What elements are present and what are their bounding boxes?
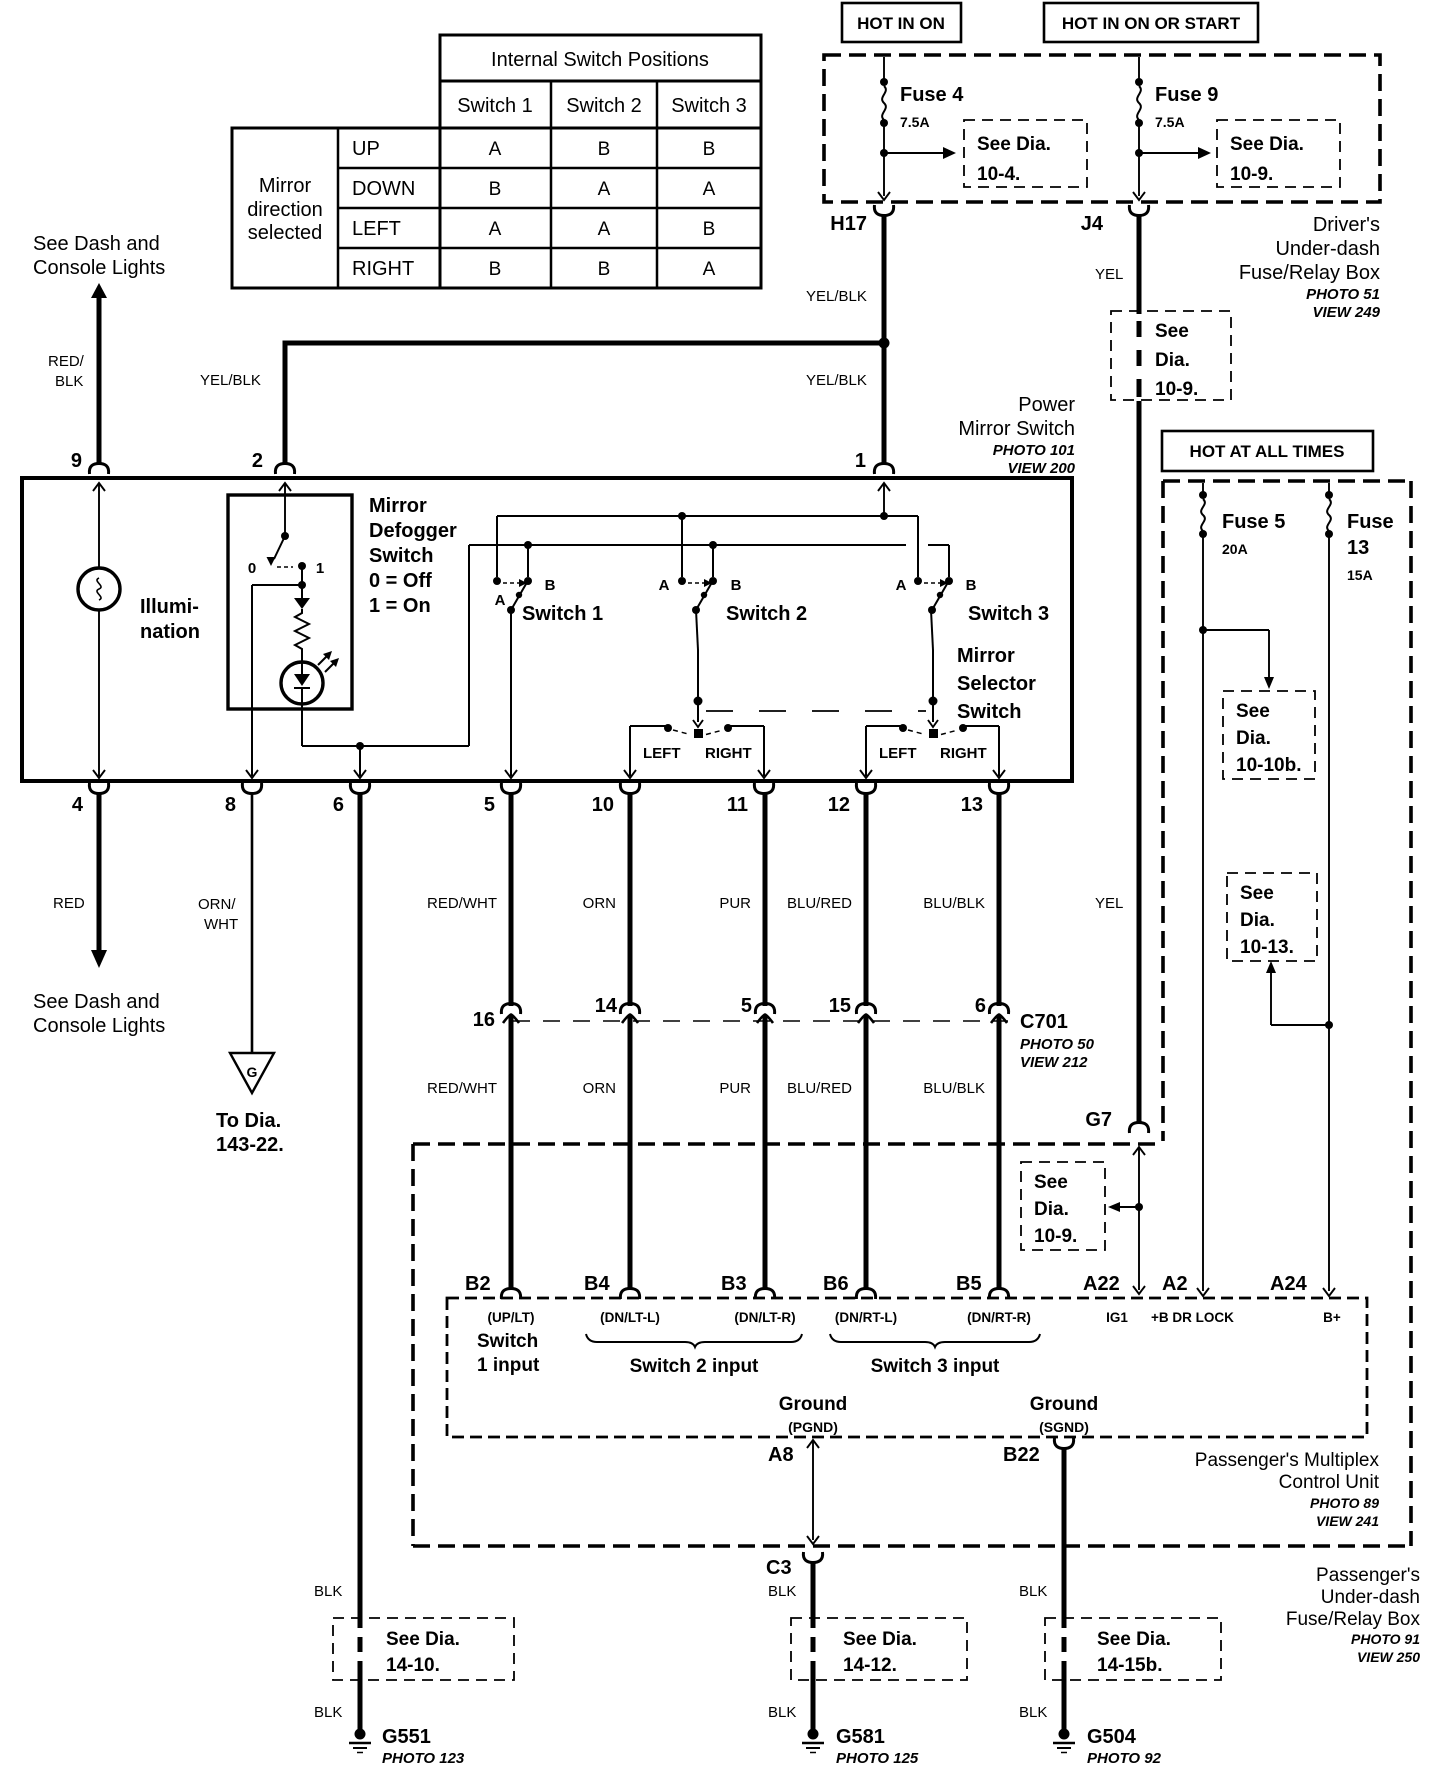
pin 2 entry arrow	[284, 483, 286, 534]
svg-text:Power: Power	[1018, 394, 1075, 416]
node See Dia. 14-12.	[791, 1618, 967, 1680]
svg-text:B: B	[966, 577, 977, 594]
svg-text:Fuse: Fuse	[1347, 511, 1394, 533]
svg-text:ORN: ORN	[583, 1080, 616, 1097]
wire RED/WHT	[509, 792, 514, 1006]
svg-text:(DN/RT-L): (DN/RT-L)	[835, 1310, 897, 1325]
svg-text:A22: A22	[1083, 1273, 1120, 1295]
svg-text:Internal Switch Positions: Internal Switch Positions	[491, 49, 709, 71]
svg-text:VIEW 249: VIEW 249	[1312, 304, 1380, 321]
wire BLU/BLK	[997, 792, 1002, 1006]
wire BLK B22 to G504	[1062, 1447, 1067, 1628]
svg-text:VIEW 250: VIEW 250	[1357, 1649, 1420, 1665]
svg-text:PHOTO 50: PHOTO 50	[1020, 1036, 1095, 1053]
svg-text:BLU/RED: BLU/RED	[787, 895, 852, 912]
svg-text:See Dash and: See Dash and	[33, 233, 160, 255]
table: Internal Switch Positions	[232, 35, 761, 288]
svg-text:14-12.: 14-12.	[843, 1655, 897, 1676]
svg-text:10-9.: 10-9.	[1034, 1226, 1077, 1247]
svg-text:ORN/: ORN/	[198, 896, 236, 913]
svg-text:15A: 15A	[1347, 567, 1373, 583]
wire ORN/WHT pin 8 to ground G	[251, 792, 254, 1053]
wire RED/BLK pin 9	[97, 295, 102, 463]
wire switch 2 common to selector 1	[696, 610, 698, 650]
svg-text:BLK: BLK	[1019, 1704, 1047, 1721]
svg-text:ORN: ORN	[583, 895, 616, 912]
svg-text:Switch 2 input: Switch 2 input	[630, 1356, 759, 1377]
passenger multiplex dashed box	[411, 1144, 415, 1546]
svg-text:PHOTO 92: PHOTO 92	[1087, 1750, 1162, 1767]
svg-text:Driver's: Driver's	[1313, 214, 1380, 236]
svg-text:H17: H17	[830, 213, 867, 235]
svg-text:See Dia.: See Dia.	[977, 134, 1051, 155]
svg-text:VIEW 212: VIEW 212	[1020, 1054, 1088, 1071]
svg-text:Dia.: Dia.	[1155, 350, 1190, 371]
svg-text:G: G	[247, 1064, 258, 1080]
defogger switch arm	[281, 532, 289, 540]
svg-text:RED/WHT: RED/WHT	[427, 895, 497, 912]
bus A (power)	[497, 515, 918, 517]
svg-text:Mirror Switch: Mirror Switch	[958, 418, 1075, 440]
svg-text:Passenger's: Passenger's	[1316, 1565, 1420, 1586]
svg-text:Mirror: Mirror	[259, 175, 312, 197]
svg-text:Switch 3: Switch 3	[968, 603, 1049, 625]
svg-text:A: A	[598, 179, 611, 200]
svg-text:Fuse 9: Fuse 9	[1155, 84, 1218, 106]
svg-text:B4: B4	[584, 1273, 610, 1295]
svg-text:B2: B2	[465, 1273, 491, 1295]
node See Dia. 10-9. (on J4 wire)	[1111, 311, 1231, 400]
junction: YEL/BLK tee	[879, 338, 890, 349]
svg-text:YEL/BLK: YEL/BLK	[200, 372, 261, 389]
fuse 9	[1133, 57, 1218, 200]
svg-text:A: A	[896, 577, 907, 594]
node HOT IN ON OR START	[1044, 3, 1258, 42]
switch 3	[914, 577, 922, 585]
svg-text:Console Lights: Console Lights	[33, 1015, 165, 1037]
wire to pin 8	[252, 584, 302, 586]
svg-text:Switch: Switch	[369, 545, 433, 567]
svg-text:0 = Off: 0 = Off	[369, 570, 432, 592]
wire BLK pin 6 to G551	[358, 792, 363, 1628]
svg-text:YEL/BLK: YEL/BLK	[806, 288, 867, 305]
svg-text:G551: G551	[382, 1726, 431, 1748]
svg-text:VIEW 200: VIEW 200	[1007, 460, 1075, 477]
svg-text:10-9.: 10-9.	[1230, 164, 1273, 185]
svg-text:PHOTO 123: PHOTO 123	[382, 1750, 465, 1767]
svg-text:Switch 2: Switch 2	[726, 603, 807, 625]
svg-text:HOT AT ALL TIMES: HOT AT ALL TIMES	[1190, 442, 1345, 461]
svg-text:11: 11	[727, 794, 748, 816]
svg-text:12: 12	[828, 794, 850, 816]
svg-text:C3: C3	[766, 1557, 792, 1579]
svg-text:(PGND): (PGND)	[788, 1419, 838, 1435]
svg-text:BLK: BLK	[768, 1704, 796, 1721]
svg-text:PHOTO 125: PHOTO 125	[836, 1750, 919, 1767]
svg-text:Switch: Switch	[957, 701, 1021, 723]
svg-text:B: B	[731, 577, 742, 594]
svg-text:WHT: WHT	[204, 916, 238, 933]
wire LED to ground bus	[301, 688, 303, 746]
svg-text:See Dash and: See Dash and	[33, 991, 160, 1013]
svg-text:7.5A: 7.5A	[1155, 114, 1185, 130]
svg-text:Fuse/Relay Box: Fuse/Relay Box	[1239, 262, 1380, 284]
svg-text:See Dia.: See Dia.	[386, 1629, 460, 1650]
node See Dia. 10-9.	[1217, 120, 1340, 187]
svg-text:PHOTO 91: PHOTO 91	[1351, 1631, 1420, 1647]
svg-text:(UP/LT): (UP/LT)	[488, 1310, 535, 1325]
svg-text:Dia.: Dia.	[1240, 910, 1275, 931]
svg-text:14-15b.: 14-15b.	[1097, 1655, 1162, 1676]
svg-text:YEL: YEL	[1095, 895, 1123, 912]
fuse 4	[878, 57, 964, 200]
ground G581	[808, 1729, 819, 1740]
svg-text:BLK: BLK	[768, 1583, 796, 1600]
brace switch 3 input	[830, 1334, 1040, 1347]
svg-text:RIGHT: RIGHT	[352, 258, 414, 280]
svg-text:143-22.: 143-22.	[216, 1134, 284, 1156]
passenger under-dash fuse/relay box (right dashed region)	[1161, 481, 1165, 1141]
svg-text:G581: G581	[836, 1726, 885, 1748]
svg-text:Fuse 4: Fuse 4	[900, 84, 964, 106]
svg-text:HOT IN ON: HOT IN ON	[857, 14, 945, 33]
svg-text:Dia.: Dia.	[1034, 1199, 1069, 1220]
svg-text:BLK: BLK	[1019, 1583, 1047, 1600]
arrow to dash lights	[91, 283, 107, 298]
svg-text:PHOTO 101: PHOTO 101	[993, 442, 1075, 459]
svg-text:See Dia.: See Dia.	[843, 1629, 917, 1650]
wire YEL from J4 down to G7	[1137, 214, 1142, 314]
mechanical link (dashed) between selectors	[706, 710, 926, 712]
svg-text:G504: G504	[1087, 1726, 1137, 1748]
svg-text:B: B	[545, 577, 556, 594]
svg-text:5: 5	[484, 794, 495, 816]
svg-text:6: 6	[333, 794, 344, 816]
svg-text:A: A	[703, 179, 716, 200]
svg-text:Fuse/Relay Box: Fuse/Relay Box	[1286, 1609, 1421, 1630]
resistor	[295, 609, 309, 652]
svg-text:See: See	[1240, 883, 1274, 904]
svg-text:16: 16	[473, 1009, 495, 1031]
svg-text:B: B	[598, 139, 611, 160]
svg-text:G7: G7	[1085, 1109, 1112, 1131]
svg-text:Ground: Ground	[1030, 1394, 1099, 1415]
svg-text:selected: selected	[248, 222, 323, 244]
svg-text:PUR: PUR	[719, 1080, 751, 1097]
wire from fuse 13 to A24	[1328, 536, 1330, 1291]
svg-text:A: A	[598, 219, 611, 240]
svg-text:B6: B6	[823, 1273, 849, 1295]
svg-text:RED/WHT: RED/WHT	[427, 1080, 497, 1097]
svg-text:Dia.: Dia.	[1236, 728, 1271, 749]
wire bulb to pin 4	[98, 610, 100, 776]
svg-text:B22: B22	[1003, 1444, 1040, 1466]
wire ORN	[628, 792, 633, 1006]
svg-text:A24: A24	[1270, 1273, 1308, 1295]
svg-text:1 = On: 1 = On	[369, 595, 431, 617]
wire: fuse 9 branch to See Dia 10-9	[1135, 149, 1143, 157]
node See Dia. 10-13.	[1227, 873, 1317, 961]
svg-text:7.5A: 7.5A	[900, 114, 930, 130]
svg-text:BLU/RED: BLU/RED	[787, 1080, 852, 1097]
svg-text:A2: A2	[1162, 1273, 1188, 1295]
pin 9 entry arrow	[98, 483, 100, 568]
svg-text:RED: RED	[53, 895, 85, 912]
svg-text:Illumi-: Illumi-	[140, 596, 199, 618]
wire PUR	[763, 792, 768, 1006]
ground G504	[1059, 1729, 1070, 1740]
svg-text:A: A	[495, 592, 506, 609]
fuse 5	[1199, 483, 1285, 557]
wire: fuse 4 branch to See Dia 10-4	[880, 149, 888, 157]
svg-text:Switch 1: Switch 1	[522, 603, 603, 625]
svg-text:BLU/BLK: BLU/BLK	[923, 895, 985, 912]
wire A22 from G7	[1133, 1147, 1145, 1155]
svg-text:Switch 3: Switch 3	[671, 95, 747, 117]
switch 2	[678, 577, 686, 585]
svg-text:PHOTO 89: PHOTO 89	[1310, 1495, 1379, 1511]
svg-text:See: See	[1034, 1172, 1068, 1193]
svg-text:9: 9	[71, 450, 82, 472]
brace switch 2 input	[586, 1334, 802, 1347]
svg-text:5: 5	[741, 995, 752, 1017]
svg-text:Control Unit: Control Unit	[1279, 1472, 1380, 1493]
svg-text:B: B	[703, 139, 716, 160]
svg-text:Ground: Ground	[779, 1394, 848, 1415]
wire BLU/RED	[864, 792, 869, 1006]
svg-text:B: B	[489, 179, 502, 200]
ground G551	[355, 1729, 366, 1740]
svg-text:+B DR LOCK: +B DR LOCK	[1151, 1310, 1234, 1325]
svg-text:UP: UP	[352, 138, 380, 160]
svg-text:(DN/RT-R): (DN/RT-R)	[967, 1310, 1031, 1325]
defogger contact 1	[298, 562, 306, 570]
junction: fuse 5 branch	[1199, 626, 1207, 634]
wire YEL/BLK horizontal to pin 2	[283, 341, 885, 346]
svg-text:(SGND): (SGND)	[1039, 1419, 1089, 1435]
svg-text:Selector: Selector	[957, 673, 1036, 695]
svg-text:B5: B5	[956, 1273, 982, 1295]
svg-text:See: See	[1236, 701, 1270, 722]
ground G (To Dia. 143-22.)	[230, 1053, 274, 1093]
wire switch 3 common to selector 2	[931, 610, 933, 650]
svg-text:14-10.: 14-10.	[386, 1655, 440, 1676]
svg-text:IG1: IG1	[1106, 1310, 1128, 1325]
svg-text:Switch 2: Switch 2	[566, 95, 642, 117]
svg-text:J4: J4	[1081, 213, 1104, 235]
svg-text:6: 6	[975, 995, 986, 1017]
selector switch (switch 3 output)	[899, 724, 907, 732]
svg-text:RIGHT: RIGHT	[705, 745, 752, 762]
wire from fuse 5 to A2	[1202, 536, 1204, 1291]
driver under-dash fuse/relay box	[824, 55, 1380, 202]
svg-text:LEFT: LEFT	[643, 745, 681, 762]
svg-text:10-9.: 10-9.	[1155, 379, 1198, 400]
junction: fuse 13 branch to See Dia 10-13	[1325, 1021, 1333, 1029]
svg-text:13: 13	[1347, 537, 1369, 559]
svg-text:A: A	[659, 577, 670, 594]
svg-text:10-4.: 10-4.	[977, 164, 1020, 185]
svg-text:13: 13	[961, 794, 983, 816]
svg-text:direction: direction	[247, 199, 323, 221]
svg-text:4: 4	[72, 794, 84, 816]
svg-text:C701: C701	[1020, 1011, 1068, 1033]
svg-text:To Dia.: To Dia.	[216, 1110, 281, 1132]
LED	[281, 651, 339, 704]
svg-text:14: 14	[595, 995, 618, 1017]
svg-text:20A: 20A	[1222, 541, 1248, 557]
defogger output node	[301, 566, 303, 585]
svg-text:B: B	[598, 259, 611, 280]
svg-text:See Dia.: See Dia.	[1230, 134, 1304, 155]
svg-text:RED/: RED/	[48, 353, 85, 370]
svg-text:Under-dash: Under-dash	[1275, 238, 1380, 260]
node See Dia. 10-9. (A22)	[1021, 1162, 1105, 1250]
svg-text:See Dia.: See Dia.	[1097, 1629, 1171, 1650]
svg-text:A: A	[489, 219, 502, 240]
svg-text:Switch 3 input: Switch 3 input	[871, 1356, 1000, 1377]
power mirror switch box	[22, 478, 1072, 781]
node See Dia. 14-10.	[333, 1618, 514, 1680]
svg-text:15: 15	[829, 995, 851, 1017]
svg-text:PHOTO 51: PHOTO 51	[1306, 286, 1380, 303]
node See Dia. 14-15b.	[1045, 1618, 1221, 1680]
node See Dia. 10-4.	[964, 120, 1087, 187]
svg-text:(DN/LT-R): (DN/LT-R)	[734, 1310, 795, 1325]
svg-text:BLU/BLK: BLU/BLK	[923, 1080, 985, 1097]
svg-text:B: B	[703, 219, 716, 240]
mirror defogger switch	[228, 495, 352, 709]
svg-text:B+: B+	[1323, 1310, 1341, 1325]
svg-text:A: A	[489, 139, 502, 160]
svg-text:Mirror: Mirror	[957, 645, 1015, 667]
svg-text:Under-dash: Under-dash	[1321, 1587, 1420, 1608]
node HOT IN ON	[842, 3, 961, 42]
svg-text:LEFT: LEFT	[352, 218, 401, 240]
svg-text:YEL: YEL	[1095, 266, 1123, 283]
svg-text:LEFT: LEFT	[879, 745, 917, 762]
svg-text:Defogger: Defogger	[369, 520, 457, 542]
wire switch 1 common to pin 5	[510, 610, 512, 776]
svg-text:BLK: BLK	[314, 1583, 342, 1600]
svg-text:0: 0	[248, 560, 256, 577]
svg-text:VIEW 241: VIEW 241	[1316, 1513, 1379, 1529]
wire B-bus riser	[468, 545, 470, 746]
svg-text:Fuse 5: Fuse 5	[1222, 511, 1285, 533]
bus B (return)	[469, 544, 906, 546]
svg-text:8: 8	[225, 794, 236, 816]
svg-text:BLK: BLK	[55, 373, 83, 390]
junction to pin 6	[356, 742, 364, 750]
connector C701 (dashed)	[513, 1020, 1008, 1022]
wire BLK C3 to G581	[811, 1561, 816, 1628]
svg-text:2: 2	[252, 450, 263, 472]
svg-text:10: 10	[592, 794, 614, 816]
svg-text:HOT IN ON OR START: HOT IN ON OR START	[1062, 14, 1241, 33]
svg-text:RIGHT: RIGHT	[940, 745, 987, 762]
svg-text:Switch: Switch	[477, 1331, 538, 1352]
svg-text:1: 1	[855, 450, 866, 472]
fuse 13	[1325, 483, 1394, 583]
svg-text:YEL/BLK: YEL/BLK	[806, 372, 867, 389]
svg-text:PUR: PUR	[719, 895, 751, 912]
svg-text:BLK: BLK	[314, 1704, 342, 1721]
pin 1 entry arrow	[883, 483, 885, 516]
selector switch (switch 2 output)	[664, 724, 672, 732]
diode	[301, 585, 303, 598]
svg-text:1: 1	[316, 560, 324, 577]
illumination bulb	[78, 568, 200, 643]
svg-text:DOWN: DOWN	[352, 178, 415, 200]
node See Dia. 10-10b.	[1223, 691, 1315, 779]
svg-text:A: A	[703, 259, 716, 280]
svg-text:Console Lights: Console Lights	[33, 257, 165, 279]
svg-text:10-10b.: 10-10b.	[1236, 755, 1301, 776]
svg-text:B: B	[489, 259, 502, 280]
svg-text:10-13.: 10-13.	[1240, 937, 1294, 958]
passenger multiplex control unit box	[447, 1298, 1367, 1437]
svg-text:See: See	[1155, 321, 1189, 342]
svg-text:A8: A8	[768, 1444, 794, 1466]
svg-text:B3: B3	[721, 1273, 747, 1295]
switch 1	[493, 577, 501, 585]
svg-text:nation: nation	[140, 621, 200, 643]
wire RED pin 4 to dash lights	[97, 792, 102, 950]
node HOT AT ALL TIMES	[1162, 431, 1373, 471]
svg-text:1 input: 1 input	[477, 1355, 540, 1376]
svg-text:Mirror: Mirror	[369, 495, 427, 517]
wire YEL/BLK from H17 to pin 1	[882, 214, 887, 463]
svg-text:Passenger's Multiplex: Passenger's Multiplex	[1195, 1450, 1380, 1471]
svg-text:Switch 1: Switch 1	[457, 95, 533, 117]
svg-text:(DN/LT-L): (DN/LT-L)	[600, 1310, 660, 1325]
